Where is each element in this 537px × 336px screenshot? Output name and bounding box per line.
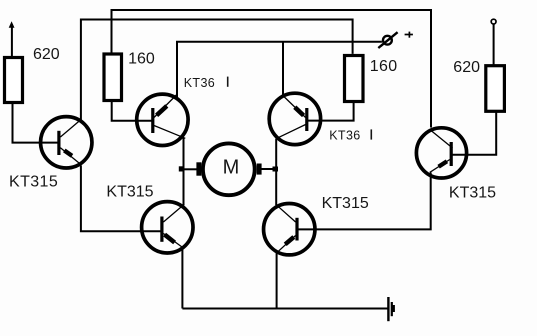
svg-text:KT36: KT36 bbox=[329, 129, 360, 143]
svg-text:KT36: KT36 bbox=[184, 76, 215, 90]
svg-text:160: 160 bbox=[128, 51, 155, 68]
svg-text:KT315: KT315 bbox=[322, 195, 369, 212]
svg-text:620: 620 bbox=[33, 46, 60, 63]
svg-text:KT315: KT315 bbox=[9, 173, 58, 190]
svg-text:620: 620 bbox=[453, 59, 480, 76]
svg-text:M: M bbox=[223, 157, 240, 179]
svg-text:KT315: KT315 bbox=[449, 184, 496, 201]
svg-text:KT315: KT315 bbox=[106, 183, 153, 200]
svg-text:160: 160 bbox=[370, 58, 398, 75]
